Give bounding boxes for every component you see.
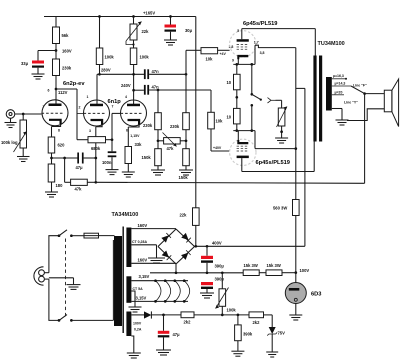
wire mains neutral xyxy=(49,279,59,320)
svg-text:4: 4 xyxy=(125,95,127,99)
svg-text:47n: 47n xyxy=(152,69,160,74)
capacitor 47n lower xyxy=(134,89,144,91)
svg-text:100k: 100k xyxy=(227,308,237,313)
capacitor 390u upper xyxy=(206,246,208,256)
svg-text:560 3W: 560 3W xyxy=(273,206,287,211)
capacitor 47u bias xyxy=(163,315,165,331)
svg-text:400V: 400V xyxy=(212,241,222,246)
svg-text:µ=14,3: µ=14,3 xyxy=(335,82,346,86)
resistor 230k left divider xyxy=(157,90,159,113)
capacitor 47u bypass xyxy=(77,153,79,164)
svg-text:75V: 75V xyxy=(278,331,286,336)
svg-text:6n1p: 6n1p xyxy=(108,99,122,105)
wire plate1 to grid2 xyxy=(56,88,77,90)
svg-text:+4V: +4V xyxy=(220,52,227,56)
triode V1a xyxy=(42,89,69,133)
ground tap OPT xyxy=(332,108,342,110)
trimmer 47k balance xyxy=(164,138,181,144)
ground chassis plug xyxy=(49,277,74,279)
resistor 100k left xyxy=(96,48,103,65)
svg-text:+40V: +40V xyxy=(213,146,222,150)
svg-text:7: 7 xyxy=(112,105,114,109)
svg-text:µ=16,3: µ=16,3 xyxy=(333,74,344,78)
ground for jack xyxy=(10,118,12,122)
resistor 56k xyxy=(53,27,60,44)
diode zener 75V xyxy=(271,315,273,327)
svg-text:100k: 100k xyxy=(140,55,150,60)
svg-text:2k2: 2k2 xyxy=(184,320,192,325)
node 160V xyxy=(55,44,57,60)
resistor 620 cathode V1a xyxy=(51,127,53,138)
winding bias 100V xyxy=(126,312,131,337)
capacitor 47n upper xyxy=(144,69,146,79)
capacitor 30u electrolytic xyxy=(169,15,172,18)
resistor 680k xyxy=(77,139,88,141)
svg-text:8: 8 xyxy=(58,129,60,133)
svg-text:56k: 56k xyxy=(62,33,70,38)
resistor 390k xyxy=(237,315,239,325)
wire screen lower xyxy=(254,131,256,149)
svg-text:10: 10 xyxy=(227,115,232,120)
svg-text:0,2A: 0,2A xyxy=(134,328,142,332)
svg-text:6n2p-ev: 6n2p-ev xyxy=(63,81,85,87)
wire cap1 to grid R xyxy=(185,50,187,74)
svg-text:µ=20: µ=20 xyxy=(335,91,343,95)
tap u=16,3 xyxy=(332,78,346,80)
wire mains live xyxy=(49,236,59,273)
bridge rectifier xyxy=(158,229,195,264)
svg-text:47µ: 47µ xyxy=(76,165,84,170)
svg-text:390k: 390k xyxy=(243,332,253,337)
svg-text:33µ: 33µ xyxy=(21,61,29,66)
svg-text:10k: 10k xyxy=(206,57,214,62)
svg-text:6: 6 xyxy=(48,89,50,93)
resistor 10 upper xyxy=(236,64,238,74)
resistor 150k left xyxy=(155,149,162,166)
tube 6D3 xyxy=(285,283,306,304)
svg-text:100n: 100n xyxy=(102,160,112,165)
svg-text:15k 3W: 15k 3W xyxy=(244,263,258,268)
jack input xyxy=(6,110,15,119)
wire primary return xyxy=(112,240,114,320)
svg-text:160V: 160V xyxy=(62,49,72,54)
wire +165V top rail xyxy=(44,16,196,18)
resistor 10k grid upper xyxy=(201,48,218,54)
ground for 180 xyxy=(45,192,58,197)
resistor 47k NFB xyxy=(64,158,66,182)
svg-text:390µ: 390µ xyxy=(215,264,225,269)
svg-text:3,15V: 3,15V xyxy=(136,296,147,301)
svg-text:TA34M100: TA34M100 xyxy=(112,212,139,218)
resistor 22k dropper xyxy=(193,208,200,226)
svg-text:150k: 150k xyxy=(179,175,189,180)
svg-text:47k: 47k xyxy=(75,187,83,192)
svg-text:10: 10 xyxy=(227,80,232,85)
svg-text:22k: 22k xyxy=(142,29,150,34)
switch mains pole 1 xyxy=(58,234,61,237)
svg-text:1,15V: 1,15V xyxy=(130,134,140,138)
svg-text:CT 0,28A: CT 0,28A xyxy=(132,240,147,244)
svg-text:22k: 22k xyxy=(180,213,188,218)
diode D2 xyxy=(181,233,191,243)
svg-text:620: 620 xyxy=(58,143,66,148)
svg-text:230k: 230k xyxy=(143,123,153,128)
svg-text:100k log: 100k log xyxy=(1,140,18,145)
svg-text:6D3: 6D3 xyxy=(311,292,321,298)
svg-text:6: 6 xyxy=(126,129,128,133)
svg-text:3,15V: 3,15V xyxy=(139,274,150,279)
svg-text:10k: 10k xyxy=(216,119,224,124)
winding HV 160-0-160 xyxy=(126,228,131,268)
diode D4 xyxy=(181,250,191,260)
svg-text:30µ: 30µ xyxy=(185,28,193,33)
wire heater CT ground xyxy=(131,291,135,307)
capacitor 33u electrolytic xyxy=(37,51,39,61)
wire NFB main line xyxy=(96,182,365,183)
svg-text:47µ: 47µ xyxy=(173,332,181,337)
resistor 2k2 bias a xyxy=(181,312,194,318)
resistor 150k right xyxy=(183,149,190,166)
wire 400V xyxy=(195,245,305,247)
resistor 560 3W screen xyxy=(293,200,300,216)
svg-text:33k: 33k xyxy=(135,142,143,147)
svg-text:CT 5A: CT 5A xyxy=(133,287,144,291)
wire screen vertical xyxy=(295,48,297,200)
trimmer 100k xyxy=(221,273,223,289)
resistor 33k xyxy=(125,147,132,164)
switch mains pole 2 xyxy=(58,319,61,322)
svg-text:2k2: 2k2 xyxy=(253,320,261,325)
resistor 230k right divider xyxy=(185,74,187,112)
svg-text:6p45s/PL519: 6p45s/PL519 xyxy=(243,21,277,27)
svg-text:47k: 47k xyxy=(167,146,175,151)
svg-text:100V: 100V xyxy=(133,322,142,326)
capacitor 390u lower xyxy=(201,282,213,285)
wire plate of V1a xyxy=(55,76,57,105)
pentode V4 6p45s lower xyxy=(230,139,256,165)
wire NFB from speaker xyxy=(364,94,366,184)
speaker xyxy=(384,90,392,112)
ground for 33u xyxy=(32,74,45,79)
cathode V2 wire xyxy=(127,127,129,147)
svg-text:TU34M100: TU34M100 xyxy=(318,41,345,47)
svg-text:+165V: +165V xyxy=(143,11,155,16)
resistor 100k mid xyxy=(130,48,137,65)
resistor 15k 3W b xyxy=(266,270,282,276)
svg-text:180: 180 xyxy=(56,183,64,188)
svg-text:3: 3 xyxy=(89,129,91,133)
svg-text:2: 2 xyxy=(79,106,81,110)
svg-text:15k 3W: 15k 3W xyxy=(267,263,281,268)
fuse xyxy=(84,233,99,238)
trimmer 22k xyxy=(132,15,135,18)
svg-text:150k: 150k xyxy=(142,155,152,160)
diode D1 xyxy=(161,233,171,243)
svg-text:230k: 230k xyxy=(62,66,72,71)
resistor 230k xyxy=(53,59,60,76)
svg-text:1,7: 1,7 xyxy=(254,40,259,44)
svg-text:1: 1 xyxy=(87,95,89,99)
wire 100V bus xyxy=(150,272,243,274)
wire screen aux stub xyxy=(296,87,305,89)
svg-text:112V: 112V xyxy=(58,90,68,95)
diode bias xyxy=(144,311,151,318)
resistor 10 lower xyxy=(234,108,241,124)
switch output tap selector xyxy=(351,86,365,94)
wire screen upper xyxy=(255,45,296,47)
mains plug xyxy=(39,270,45,276)
wire cathode upper xyxy=(237,59,239,64)
pentode V3 6p45s upper xyxy=(230,29,265,63)
svg-text:280V: 280V xyxy=(101,68,111,73)
svg-text:3,8: 3,8 xyxy=(260,51,265,55)
svg-text:7: 7 xyxy=(43,105,45,109)
resistor 180 xyxy=(48,164,55,182)
tap u=20 Line Y xyxy=(332,94,344,96)
wire jack to grid xyxy=(15,113,42,115)
winding heater 3,15-0-3,15 xyxy=(126,276,131,303)
svg-text:230k: 230k xyxy=(170,124,180,129)
transformer TU34M100 primary xyxy=(313,56,316,142)
resistor 2k2 bias b xyxy=(249,312,264,318)
switch bias selector xyxy=(251,64,253,94)
transformer TU34M100 secondary xyxy=(326,77,332,111)
wire plate bus y74 xyxy=(97,73,144,75)
wire plate to OPT top xyxy=(242,28,315,30)
potentiometer 100k log xyxy=(22,114,24,120)
triode V1b xyxy=(79,95,110,133)
svg-text:100k: 100k xyxy=(105,55,115,60)
svg-text:Line "Y": Line "Y" xyxy=(344,101,358,105)
svg-text:160V: 160V xyxy=(138,223,148,228)
svg-text:160V: 160V xyxy=(138,258,148,263)
svg-text:390µ: 390µ xyxy=(215,277,225,282)
wire +165 dropper vertical xyxy=(195,17,197,208)
transformer TA34M100 primary xyxy=(114,236,122,326)
wire grid V2 xyxy=(112,112,121,114)
resistor 15k 3W a xyxy=(243,270,259,276)
svg-text:240V: 240V xyxy=(121,83,131,88)
svg-text:5: 5 xyxy=(237,29,239,33)
wire plate lower to OPT bottom xyxy=(241,158,243,171)
svg-text:6p45s/PL519: 6p45s/PL519 xyxy=(256,160,290,166)
resistor 10k grid lower xyxy=(210,90,212,112)
wire NFB vertical xyxy=(95,127,97,183)
heater jumper arcs xyxy=(156,281,190,302)
wire to 33u xyxy=(38,50,56,52)
capacitor 100n xyxy=(108,151,117,153)
svg-text:680k: 680k xyxy=(91,146,101,151)
svg-text:Line "F": Line "F" xyxy=(353,84,367,88)
triode V2 6n1p xyxy=(112,95,147,133)
tap u=14,3 Line F xyxy=(332,85,351,87)
diode D3 xyxy=(162,250,172,260)
trimmer bias xyxy=(281,100,283,108)
link switch ganged dashed xyxy=(65,239,67,318)
svg-text:100V: 100V xyxy=(300,268,310,273)
wire cathode bus xyxy=(52,157,78,159)
svg-text:9: 9 xyxy=(232,59,234,63)
wire aux to 400V xyxy=(304,88,306,246)
wire cathode lower xyxy=(237,136,239,141)
